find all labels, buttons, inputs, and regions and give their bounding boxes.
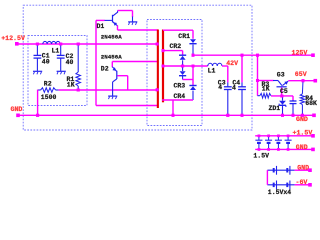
node G3 base bbox=[280, 95, 283, 98]
svg-text:40: 40 bbox=[66, 59, 74, 66]
cell 1 of B1 bbox=[258, 135, 261, 138]
node C3 ground bbox=[226, 114, 229, 117]
node C4 ground bbox=[241, 114, 244, 117]
cell 4 of B1 bbox=[287, 135, 290, 138]
65V terminal bbox=[314, 79, 318, 83]
node primary top tap on T1 bbox=[156, 43, 159, 46]
inductor L1 output choke bbox=[208, 63, 222, 66]
node 65V line start bbox=[256, 79, 259, 82]
svg-text:GND: GND bbox=[297, 165, 309, 172]
inductor L1 (input filter) bbox=[43, 41, 60, 44]
diode CR4 bbox=[189, 85, 196, 87]
cell 3 of B1 bbox=[277, 135, 280, 138]
wire D2 base jog bbox=[117, 75, 127, 77]
svg-text:-6V: -6V bbox=[296, 179, 308, 186]
wire secondary top to CR1 bbox=[163, 29, 193, 31]
B2 cell 3 bbox=[273, 183, 275, 188]
svg-text:C5: C5 bbox=[280, 88, 288, 95]
node CR2 bottom bbox=[181, 65, 184, 68]
input filter dashed enclosure bbox=[28, 36, 87, 106]
node return on ground rail bbox=[172, 114, 175, 117]
node ground R2 bbox=[36, 114, 39, 117]
chassis ground at D2 bbox=[108, 95, 117, 97]
battery B2 series chain top row bbox=[267, 169, 294, 171]
svg-text:2N456A: 2N456A bbox=[101, 33, 122, 40]
svg-text:CR2: CR2 bbox=[170, 43, 182, 50]
wire R3 to base node to C5 bbox=[271, 95, 293, 97]
D1 collector ground lead bbox=[132, 17, 134, 22]
G3 base lead bbox=[281, 87, 283, 96]
wire B2 left link bbox=[266, 170, 268, 185]
chassis ground at D1 collector bbox=[128, 21, 137, 23]
GND terminal right bbox=[312, 114, 316, 118]
ground under C1 bbox=[33, 70, 42, 72]
D1 emitter stroke with arrow bbox=[113, 22, 118, 26]
wire CR3 bottom to CR4 branch bbox=[183, 79, 193, 81]
svg-text:4: 4 bbox=[232, 84, 236, 91]
ground under C2 bbox=[57, 70, 66, 72]
capacitor C5 bbox=[292, 100, 294, 101]
D1 collector stroke bbox=[113, 11, 118, 17]
G3 emitter stroke with arrow bbox=[282, 81, 288, 86]
node CR1 out bbox=[192, 54, 195, 57]
battery B1 ground terminal bbox=[311, 148, 315, 152]
wire main ground rail bbox=[18, 114, 314, 116]
junction dots layer bbox=[36, 43, 305, 151]
svg-text:1.5Vx4: 1.5Vx4 bbox=[268, 189, 292, 196]
svg-text:125V: 125V bbox=[292, 50, 308, 57]
node CR4 top tee bbox=[192, 65, 195, 68]
svg-text:L1: L1 bbox=[52, 47, 60, 54]
capacitor C1 bbox=[36, 44, 38, 55]
svg-text:+12.5V: +12.5V bbox=[1, 35, 25, 42]
wire choke output down to ground rail bbox=[222, 65, 228, 67]
svg-text:CR1: CR1 bbox=[178, 33, 190, 40]
D2 emitter lead to ground bbox=[112, 82, 114, 96]
cell 2 of B1 bbox=[267, 135, 270, 138]
converter module dashed enclosure bbox=[23, 5, 252, 130]
wire +12.5V rail bbox=[17, 43, 158, 45]
node R1 top bbox=[77, 43, 80, 46]
diode CR1 bbox=[190, 39, 196, 43]
svg-text:L1: L1 bbox=[208, 67, 216, 74]
D2 top stroke with arrow bbox=[112, 67, 116, 71]
rectifier dashed enclosure bbox=[147, 20, 202, 126]
wire B2 bottom row to -6V terminal bbox=[295, 184, 309, 186]
diode CR2 bbox=[179, 54, 186, 56]
transistor D1 base bar bbox=[112, 15, 113, 23]
wire R2 left to ground rail bbox=[37, 90, 39, 116]
svg-text:D2: D2 bbox=[101, 65, 109, 72]
svg-text:D1: D1 bbox=[97, 23, 105, 30]
transistor G3 bar bbox=[277, 86, 287, 87]
GND terminal left bbox=[16, 114, 20, 118]
svg-text:CR3: CR3 bbox=[174, 83, 186, 90]
battery B2 bottom row bbox=[267, 184, 294, 186]
capacitor C2 bbox=[60, 44, 62, 55]
svg-text:4: 4 bbox=[218, 84, 222, 91]
node C4 top bbox=[241, 54, 244, 57]
wire CR4 top lead bbox=[192, 66, 194, 85]
battery B1 ground rail bbox=[255, 148, 311, 150]
svg-text:ZD1: ZD1 bbox=[269, 105, 281, 112]
node R4 ground bbox=[301, 114, 304, 117]
svg-text:65V: 65V bbox=[295, 71, 307, 78]
node C5 ground bbox=[292, 114, 295, 117]
node C2 top bbox=[59, 43, 62, 46]
wire B2 top row to GND terminal bbox=[295, 169, 309, 171]
B2 cell 1 bbox=[273, 168, 275, 173]
svg-text:42V: 42V bbox=[226, 60, 238, 67]
resistor R1 bbox=[77, 44, 79, 72]
B2 cell 2 bbox=[286, 168, 288, 173]
node regulator feed bbox=[256, 54, 259, 57]
wire 125V output rail bbox=[193, 54, 312, 56]
resistor R2 bbox=[38, 89, 41, 91]
resistor R4 bbox=[301, 81, 304, 94]
wire 65V line to G3 collector bbox=[258, 80, 274, 82]
D2 bottom stroke bbox=[113, 79, 117, 82]
svg-text:R2: R2 bbox=[44, 80, 52, 87]
wire rectifier return to secondary bottom bbox=[162, 99, 193, 101]
+1.5V terminal bbox=[311, 134, 315, 138]
resistor R3 bbox=[258, 95, 260, 97]
svg-text:40: 40 bbox=[42, 58, 50, 65]
wire D2 top to T1 primary bbox=[112, 61, 158, 63]
svg-text:GND: GND bbox=[296, 116, 308, 123]
svg-text:1K: 1K bbox=[67, 82, 75, 89]
svg-text:GND: GND bbox=[296, 144, 308, 151]
transistor D2 base bar bbox=[116, 71, 117, 79]
svg-text:68K: 68K bbox=[305, 100, 317, 107]
wire D1 base return along bottom bbox=[96, 105, 157, 107]
wire D1 base bbox=[96, 19, 105, 21]
transformer T1 primary winding bar bbox=[157, 30, 159, 109]
diode CR3 bbox=[182, 66, 184, 71]
transformer T1 secondary winding bar bbox=[162, 30, 164, 103]
wire tap to CR2 bbox=[163, 50, 183, 52]
svg-text:GND: GND bbox=[11, 106, 23, 113]
capacitor C3 bbox=[227, 82, 229, 86]
wire regulator drop bbox=[257, 55, 259, 95]
wire 65V output rail bbox=[288, 80, 315, 82]
node divider at T1 primary bbox=[156, 88, 159, 91]
svg-text:G3: G3 bbox=[277, 71, 285, 78]
node C1 top bbox=[36, 43, 39, 46]
svg-text:CR4: CR4 bbox=[174, 93, 186, 100]
zener diode ZD1 bbox=[282, 96, 284, 101]
node R1 bottom bbox=[77, 89, 80, 92]
G3 collector strokes bbox=[273, 80, 278, 82]
svg-text:1500: 1500 bbox=[41, 94, 57, 101]
125V terminal bbox=[311, 53, 315, 57]
wire center tap line to choke bbox=[163, 65, 208, 67]
node secondary center tap bbox=[162, 65, 165, 68]
wire D1 collector loop to ground bbox=[118, 10, 133, 12]
capacitor C4 bbox=[241, 55, 243, 82]
wire base divider rail to T1 bbox=[59, 89, 158, 91]
node R4 top bbox=[302, 79, 305, 82]
svg-text:1K: 1K bbox=[262, 85, 270, 92]
wire return drop to ground rail bbox=[172, 100, 174, 115]
wire D1 emitter to T1 primary bbox=[117, 25, 119, 30]
svg-text:1.5V: 1.5V bbox=[253, 153, 269, 160]
B2 cell 4 bbox=[286, 183, 288, 188]
svg-text:2N456A: 2N456A bbox=[101, 53, 122, 60]
node secondary tap CR2 bbox=[162, 49, 165, 52]
battery B1 plus rail bbox=[255, 135, 311, 137]
+12.5V input terminal bbox=[15, 42, 19, 46]
node ZD1 ground bbox=[281, 114, 284, 117]
